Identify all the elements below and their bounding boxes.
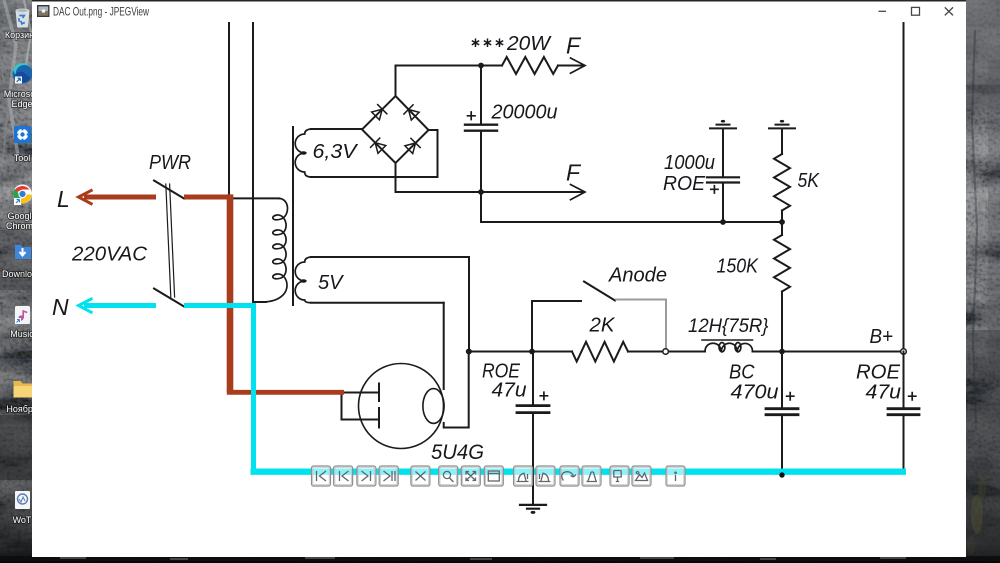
plus sign 20000u bbox=[468, 112, 476, 120]
dark patch left strip bbox=[0, 415, 32, 480]
transformer T1 primary top lead bbox=[233, 197, 279, 199]
node anode open terminal bbox=[663, 349, 669, 355]
document icon "Wo" bbox=[13, 491, 32, 525]
transformer T1 primary coil bbox=[262, 198, 288, 302]
svg-text:N: N bbox=[52, 294, 69, 320]
tube filament loop lead bbox=[342, 394, 379, 420]
transformer T1 primary bottom lead bbox=[254, 301, 266, 303]
music icon bbox=[10, 306, 34, 339]
bridge rectifier diamond bbox=[362, 96, 429, 163]
wire tube anode to bus riser bbox=[444, 352, 469, 428]
tube filament bars bbox=[378, 384, 380, 428]
svg-text:ROE: ROE bbox=[663, 173, 706, 195]
maximize button bbox=[912, 7, 920, 15]
svg-text:1000u: 1000u bbox=[664, 152, 715, 174]
node minus rail bbox=[478, 189, 484, 195]
google chrome icon bbox=[6, 185, 38, 232]
wire B+ bus bbox=[469, 351, 901, 353]
svg-text:5V: 5V bbox=[318, 272, 344, 294]
capacitor BC 470u bbox=[781, 352, 783, 408]
switch Anode blade bbox=[584, 282, 615, 301]
recycle bin icon bbox=[5, 9, 39, 41]
node bus 2K left bbox=[529, 349, 535, 355]
ground symbol bbox=[520, 505, 546, 509]
svg-text:BC: BC bbox=[729, 362, 755, 384]
svg-text:5K: 5K bbox=[798, 170, 821, 192]
svg-text:B+: B+ bbox=[870, 326, 894, 348]
5V winding pigtail dot bbox=[300, 279, 306, 282]
resistor R 20W bbox=[502, 57, 558, 74]
wire bridge minus output down bbox=[395, 66, 397, 97]
svg-text:6,3V: 6,3V bbox=[313, 141, 359, 163]
svg-text:Music: Music bbox=[10, 329, 34, 339]
wire 5V bottom to tube bbox=[443, 303, 445, 389]
transformer T1 core bbox=[292, 127, 294, 305]
diode D4 bottom-right bbox=[404, 138, 420, 154]
wire ground lead over cyan bbox=[532, 466, 534, 492]
diode D3 bottom-left bbox=[371, 138, 387, 154]
title bar icon bbox=[37, 5, 50, 17]
svg-text:12H{75R}: 12H{75R} bbox=[688, 315, 769, 337]
svg-text:20000u: 20000u bbox=[491, 102, 558, 124]
svg-text:Anode: Anode bbox=[608, 265, 667, 287]
inductor 12H{75R} bbox=[705, 343, 753, 352]
svg-text:Edge: Edge bbox=[11, 99, 32, 109]
wire 2K left riser bbox=[531, 301, 533, 352]
wire second F line bbox=[396, 191, 585, 193]
svg-text:F: F bbox=[566, 160, 582, 186]
node bridge+ / cap top bbox=[478, 63, 484, 69]
node divider top bbox=[779, 219, 785, 225]
chassis symbol above 1000u bbox=[710, 125, 736, 129]
svg-text:47u: 47u bbox=[492, 380, 527, 402]
plus sign 470u bbox=[787, 393, 794, 400]
close button bbox=[945, 7, 953, 15]
wire minus rail down and right bbox=[481, 192, 782, 222]
wire N neutral cyan bbox=[79, 298, 907, 471]
node B+ open terminal bbox=[901, 349, 907, 355]
minimize button bbox=[879, 10, 887, 12]
wire bridge plus output up bbox=[395, 163, 397, 192]
svg-text:WoT: WoT bbox=[13, 515, 32, 525]
switch Anode gray return bbox=[616, 300, 666, 349]
inductor label underline bbox=[702, 339, 753, 341]
switch Anode fixed lead bbox=[532, 300, 581, 302]
node 1000u minus bbox=[720, 219, 726, 225]
svg-text:220VAC: 220VAC bbox=[71, 244, 148, 266]
wire 5V top to bus bbox=[468, 257, 470, 352]
capacitor 20000u bbox=[480, 66, 482, 124]
resistor 5K bbox=[781, 129, 783, 154]
wire L live red bbox=[79, 190, 345, 392]
svg-text:ROE: ROE bbox=[856, 362, 901, 384]
capacitor ROE 47u right bbox=[903, 352, 905, 408]
plus sign 47u left bbox=[540, 392, 547, 399]
transformer 5V winding loop bbox=[311, 256, 469, 258]
svg-text:L: L bbox=[57, 186, 70, 212]
svg-text:5U4G: 5U4G bbox=[431, 441, 484, 464]
label *** 20W bbox=[472, 39, 503, 48]
arrow F bottom bbox=[571, 185, 586, 200]
right strip shading bbox=[966, 0, 1000, 110]
switch PWR blade bottom bbox=[154, 289, 184, 307]
capacitor 1000u ROE bbox=[722, 129, 724, 176]
diode D2 top-right bbox=[404, 105, 420, 121]
wire bridge AC right drop bbox=[429, 130, 438, 177]
switch PWR linkage bbox=[166, 184, 175, 297]
resistor 2K bbox=[572, 342, 628, 362]
plus sign 47u right bbox=[909, 393, 916, 400]
chassis symbol above 5K bbox=[769, 125, 795, 129]
svg-text:Tool: Tool bbox=[14, 153, 31, 163]
bottom dark band bbox=[0, 556, 1000, 563]
svg-text:470u: 470u bbox=[731, 382, 779, 404]
svg-text:2K: 2K bbox=[588, 315, 616, 337]
wire B+ rail vertical right bbox=[903, 23, 905, 349]
tube 5U4G anode loop bbox=[423, 389, 444, 424]
6,3V winding pigtail dot bbox=[300, 151, 306, 154]
diode D1 top-left bbox=[371, 105, 387, 121]
plus sign 1000u bbox=[711, 186, 718, 193]
wire mains vertical 2 bbox=[252, 23, 254, 304]
downloads icon bbox=[2, 244, 42, 280]
wire top F line bbox=[396, 65, 585, 67]
light quartz veins top-left bbox=[4, 0, 18, 155]
november folder icon bbox=[6, 381, 38, 414]
svg-text:47u: 47u bbox=[866, 382, 902, 404]
tube 5U4G envelope bbox=[359, 364, 444, 449]
switch PWR blade top bbox=[154, 181, 184, 199]
moss patch bottom right bbox=[971, 494, 983, 534]
svg-text:PWR: PWR bbox=[149, 152, 191, 174]
capacitor ROE 47u left bbox=[532, 352, 534, 405]
node 5V at bus bbox=[466, 349, 472, 355]
svg-text:F: F bbox=[566, 33, 582, 59]
settings gear icon bbox=[14, 126, 31, 163]
tube filament top lead bbox=[344, 392, 378, 394]
node choke out bbox=[779, 349, 785, 355]
svg-text:20W: 20W bbox=[506, 33, 552, 55]
svg-text:150K: 150K bbox=[717, 256, 760, 278]
node bus left bbox=[466, 349, 472, 355]
resistor 150K bbox=[781, 222, 783, 235]
node 470u at ground wire bbox=[779, 472, 784, 477]
wire mains vertical 1 bbox=[228, 23, 230, 195]
microsoft edge icon bbox=[4, 63, 41, 109]
svg-text:DAC Out.png - JPEGView: DAC Out.png - JPEGView bbox=[53, 4, 149, 18]
arrow F top bbox=[571, 58, 586, 73]
transformer 6,3V winding loop bbox=[311, 128, 362, 130]
